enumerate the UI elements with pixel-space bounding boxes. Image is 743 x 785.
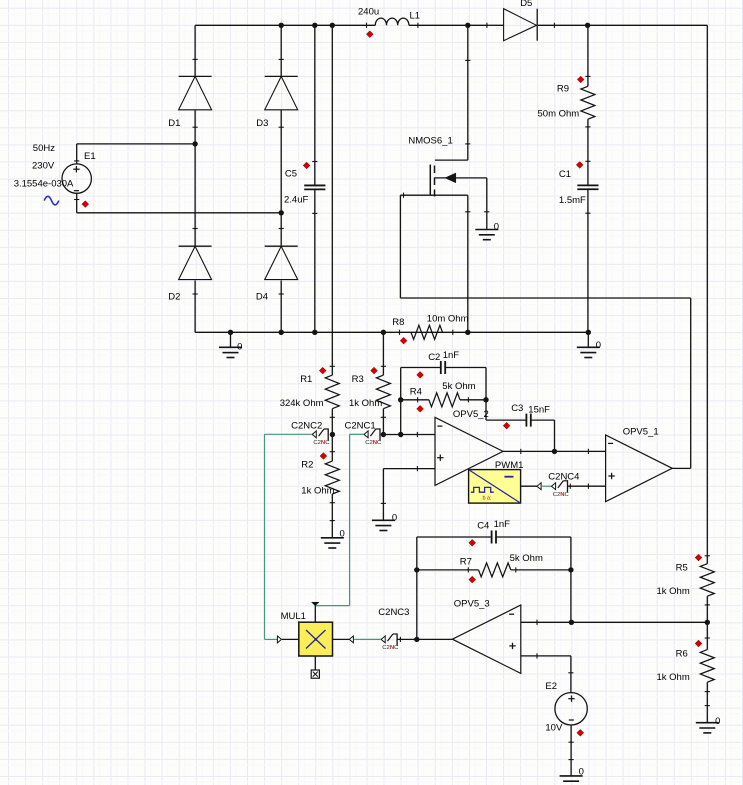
wire D2 column to rail: [194, 280, 196, 332]
svg-text:R7: R7: [460, 557, 472, 568]
svg-text:3.1554e-030A: 3.1554e-030A: [14, 178, 74, 189]
svg-text:1k Ohm: 1k Ohm: [301, 485, 334, 496]
label D1: [168, 118, 180, 129]
label 5kOhm R7: [510, 553, 543, 564]
probe R3: [371, 367, 378, 374]
wire D3-D4 mid: [280, 110, 282, 247]
teal wire C2NC2 to MUL1: [265, 434, 312, 639]
label R1: [300, 374, 312, 385]
svg-text:10m Ohm: 10m Ohm: [427, 313, 469, 324]
sine symbol E1: [44, 196, 59, 205]
source E1: [62, 161, 91, 200]
wire C2NC4 to OPV5_1: [568, 484, 606, 489]
resistor R8: [400, 325, 453, 339]
label 50mOhm: [538, 108, 580, 119]
svg-text:5k Ohm: 5k Ohm: [442, 381, 475, 392]
label D5: [520, 0, 532, 9]
node top rail drain: [465, 23, 470, 28]
node R1R2: [330, 432, 335, 437]
teal wire C2NC1 to MUL1 top: [315, 434, 363, 605]
label PWM1: [495, 460, 524, 471]
wire right rail down: [706, 25, 708, 563]
wire E1 bottom: [77, 193, 282, 213]
svg-text:C2NC: C2NC: [553, 492, 570, 498]
diode D5: [487, 9, 555, 41]
wire R9 to C1: [587, 119, 589, 185]
node rail right end: [586, 330, 591, 335]
svg-text:0: 0: [237, 341, 242, 352]
ground R2: [321, 529, 345, 548]
svg-text:C2NC2: C2NC2: [291, 421, 322, 432]
svg-text:0: 0: [494, 222, 499, 233]
resistor R5: [700, 556, 714, 605]
wire R4 leads: [401, 399, 486, 401]
svg-text:C2NC: C2NC: [382, 645, 399, 651]
label E1: [84, 151, 96, 162]
label 10V: [545, 723, 563, 734]
svg-text:b a;: b a;: [483, 495, 492, 501]
label 1kOhm R5: [657, 586, 690, 597]
capacitor C2: [441, 361, 445, 374]
svg-text:50m Ohm: 50m Ohm: [538, 108, 580, 119]
wire OPV5_2 plus input: [381, 466, 435, 520]
wire top rail: [195, 24, 707, 26]
label 50Hz: [33, 143, 55, 154]
label C2NC2: [291, 421, 322, 432]
wire R1 sense column: [331, 25, 333, 375]
arrow MUL1 left in: [277, 636, 281, 643]
label C3: [511, 403, 523, 414]
label R7: [460, 557, 472, 568]
ground R6: [696, 716, 721, 733]
capacitor C4: [492, 531, 496, 544]
label 1kOhm R3: [349, 398, 382, 409]
svg-text:D3: D3: [256, 118, 268, 129]
label 10mOhm: [427, 313, 469, 324]
wire C1 to ground rail: [587, 189, 589, 332]
svg-text:L1: L1: [410, 10, 421, 21]
svg-text:C5: C5: [285, 168, 297, 179]
terminal MUL1 bottom: [311, 670, 319, 678]
label 240u: [358, 6, 379, 17]
wire bridge bottom rail: [195, 331, 588, 333]
wire feedback left: [400, 368, 402, 435]
label 1kOhm R2: [301, 485, 334, 496]
label 15nF: [528, 405, 550, 416]
node R7 right: [568, 567, 573, 572]
capacitor C1: [577, 161, 598, 213]
teal wire PWM1 to C2NC4: [541, 485, 551, 487]
svg-text:D5: D5: [520, 0, 532, 9]
probe R6: [695, 640, 702, 647]
label MUL1: [281, 611, 306, 622]
label OPV5_2: [453, 409, 489, 420]
svg-text:1k Ohm: 1k Ohm: [657, 672, 690, 683]
wire D1 to E1 node: [194, 110, 196, 247]
svg-text:240u: 240u: [358, 6, 379, 17]
wire C5 column: [314, 25, 316, 332]
node rail D4: [279, 330, 284, 335]
svg-text:PWM1: PWM1: [495, 460, 524, 471]
wire OPV5_1 output: [672, 467, 691, 469]
svg-text:C2NC1: C2NC1: [345, 421, 376, 432]
wire R1 to R2: [331, 409, 333, 461]
svg-text:1k Ohm: 1k Ohm: [657, 586, 690, 597]
svg-text:R5: R5: [676, 563, 688, 574]
wire D1 column: [194, 25, 196, 76]
wire error amp input node: [383, 432, 434, 437]
resistor R1: [325, 366, 339, 417]
label OPV5_3: [454, 599, 490, 610]
wire E1 top: [77, 144, 195, 164]
label 2.4uF: [284, 195, 308, 206]
arrow MUL1 top in: [312, 602, 320, 606]
label R3: [352, 374, 364, 385]
svg-text:NMOS6_1: NMOS6_1: [408, 136, 452, 147]
arrow PWM1 out: [537, 483, 541, 490]
coupler C2NC4: [552, 480, 570, 498]
ground shunt right: [577, 332, 601, 357]
ground NMOS bulk: [475, 222, 499, 240]
svg-text:E2: E2: [545, 681, 557, 692]
wire OPV5_3 out: [398, 637, 453, 642]
svg-text:MUL1: MUL1: [281, 611, 306, 622]
node top rail C5: [312, 23, 317, 28]
wire tap to divider: [571, 621, 708, 623]
wire C3 link: [486, 420, 555, 451]
resistor R4: [418, 393, 469, 407]
probe R5: [695, 554, 702, 561]
label D3: [256, 118, 268, 129]
svg-text:C2NC: C2NC: [365, 440, 382, 446]
label 324kOhm: [280, 398, 324, 409]
node rail source: [465, 330, 470, 335]
wire NMOS drain: [467, 25, 469, 160]
probe R9: [577, 76, 584, 83]
svg-text:D2: D2: [168, 292, 180, 303]
op-amp OPV5_2: [435, 417, 503, 485]
inductor L1: [367, 18, 418, 28]
probe C5: [303, 162, 310, 169]
wire OPV5_3 plus: [521, 653, 574, 692]
label D2: [168, 292, 180, 303]
svg-text:R3: R3: [352, 374, 364, 385]
svg-text:R9: R9: [557, 84, 569, 95]
svg-text:324k Ohm: 324k Ohm: [280, 398, 324, 409]
node minus tap: [569, 620, 574, 625]
node error input: [398, 432, 403, 437]
svg-text:15nF: 15nF: [528, 405, 550, 416]
svg-text:2.4uF: 2.4uF: [284, 195, 308, 206]
label C1: [559, 169, 571, 180]
node E1 top: [192, 141, 197, 146]
label 1kOhm R6: [657, 672, 690, 683]
svg-text:0: 0: [579, 766, 584, 777]
svg-text:1nF: 1nF: [443, 350, 460, 361]
svg-text:OPV5_2: OPV5_2: [453, 409, 489, 420]
multiplier MUL1: [282, 606, 349, 671]
svg-text:C3: C3: [511, 403, 523, 414]
probe R1: [319, 367, 326, 374]
op-amp OPV5_3: [452, 605, 520, 673]
op-amp OPV5_1: [606, 435, 673, 502]
wire C2 top: [401, 367, 486, 369]
coupler C2NC3: [381, 633, 399, 651]
label R4: [410, 387, 422, 398]
diode D4: [265, 229, 298, 295]
probe C4: [469, 539, 476, 546]
svg-text:R1: R1: [300, 374, 312, 385]
wire feedback right: [485, 368, 487, 421]
coupler C2NC2: [312, 428, 330, 446]
source E2: [555, 693, 587, 725]
node C3 tap: [552, 449, 557, 454]
svg-text:C2: C2: [428, 352, 440, 363]
probe C1: [576, 162, 583, 169]
svg-text:0: 0: [392, 512, 397, 523]
coupler C2NC1: [364, 428, 382, 446]
diode D3: [265, 59, 298, 127]
wire R2 to ground: [331, 494, 333, 538]
label OPV5_1: [623, 426, 659, 437]
node top rail R1: [330, 23, 335, 28]
svg-text:230V: 230V: [32, 160, 55, 171]
probe E1: [82, 201, 89, 208]
wire R7 leads: [417, 569, 571, 571]
label R6: [676, 648, 688, 659]
wire R3 branch: [382, 332, 384, 375]
node rail R3: [381, 330, 386, 335]
label R9: [557, 84, 569, 95]
node R3 bottom: [381, 432, 386, 437]
label 1nF C2: [443, 350, 460, 361]
svg-text:1nF: 1nF: [494, 519, 511, 530]
block PWM1: [469, 470, 521, 504]
label L1: [410, 10, 421, 21]
capacitor C5: [304, 162, 325, 214]
svg-text:C4: C4: [477, 521, 489, 532]
label 1nF C4: [494, 519, 511, 530]
resistor R7: [468, 563, 516, 577]
label C2NC3: [378, 607, 409, 618]
label R2: [301, 459, 313, 470]
teal wire MUL1 right: [354, 638, 381, 640]
wire D4 to rail: [280, 280, 282, 332]
svg-text:R2: R2: [301, 459, 313, 470]
label 230V: [32, 160, 55, 171]
svg-text:E1: E1: [84, 151, 96, 162]
label 3.1554e-030A: [14, 178, 74, 189]
probe R2: [320, 453, 327, 460]
probe L1: [366, 31, 373, 38]
svg-text:10V: 10V: [545, 723, 563, 734]
wire E2 to ground: [569, 725, 574, 776]
resistor R6: [700, 638, 714, 692]
label R5: [676, 563, 688, 574]
svg-text:1.5mF: 1.5mF: [559, 195, 586, 206]
resistor R3: [376, 366, 390, 417]
node R7 left: [414, 567, 419, 572]
svg-text:C1: C1: [559, 169, 571, 180]
label 5kOhm R4: [442, 381, 475, 392]
probe C2: [417, 372, 424, 379]
svg-text:C2NC3: C2NC3: [378, 607, 409, 618]
wire R6 to ground: [705, 682, 710, 722]
label NMOS6_1: [408, 136, 452, 147]
label E2: [545, 681, 557, 692]
label C5: [285, 168, 297, 179]
label C2: [428, 352, 440, 363]
resistor R2: [325, 452, 339, 521]
transistor NMOS6_1: [400, 60, 489, 228]
wire fb3 vertical: [416, 537, 418, 639]
probe R4: [417, 405, 424, 412]
wire D3 column: [280, 25, 282, 76]
wire NMOS gate run: [400, 195, 690, 468]
svg-text:R4: R4: [410, 387, 422, 398]
label D4: [256, 292, 268, 303]
svg-text:0: 0: [715, 716, 720, 727]
svg-text:R6: R6: [676, 648, 688, 659]
probe R8: [400, 337, 407, 344]
node E1 bottom: [279, 210, 284, 215]
wire NMOS source to rail: [467, 195, 469, 332]
svg-text:0: 0: [340, 529, 345, 540]
ground E2: [560, 766, 584, 785]
resistor R9: [581, 76, 595, 127]
wire R5 to tap: [706, 596, 708, 649]
probe E2: [577, 729, 584, 736]
diode D2: [179, 229, 212, 295]
node divider tap: [705, 620, 710, 625]
wire PWM1 output: [521, 485, 537, 487]
svg-text:R8: R8: [392, 317, 404, 328]
node fb left top: [398, 397, 403, 402]
svg-text:OPV5_3: OPV5_3: [454, 599, 490, 610]
arrow MUL1 right in: [349, 636, 353, 643]
svg-text:50Hz: 50Hz: [33, 143, 55, 154]
svg-text:0: 0: [596, 340, 601, 351]
svg-text:D1: D1: [168, 118, 180, 129]
node top rail R9: [585, 23, 590, 28]
node fb right: [483, 397, 488, 402]
node rail gnd: [228, 330, 233, 335]
diode D1: [179, 59, 212, 127]
ground OPV5_2 plus: [372, 512, 397, 530]
wire OPV5_3 minus: [521, 620, 572, 625]
svg-text:OPV5_1: OPV5_1: [623, 426, 659, 437]
probe R7: [469, 576, 476, 583]
wire C4 top: [417, 537, 571, 622]
svg-text:5k Ohm: 5k Ohm: [510, 553, 543, 564]
capacitor C3: [526, 414, 530, 427]
node rail C5: [312, 330, 317, 335]
node OPV5_3 out: [414, 637, 419, 642]
wire R3 to node: [382, 409, 384, 435]
svg-text:C2NC: C2NC: [313, 440, 330, 446]
label C2NC4: [548, 471, 579, 482]
node top rail D3: [279, 23, 284, 28]
svg-text:D4: D4: [256, 292, 268, 303]
label R8: [392, 317, 404, 328]
probe C3: [503, 422, 510, 429]
label 1.5mF: [559, 195, 586, 206]
wire R9 column: [587, 25, 589, 86]
label C2NC1: [345, 421, 376, 432]
wire OPV5_2 output: [503, 449, 605, 454]
wire L1 leads: [0, 0, 1, 1]
svg-text:1k Ohm: 1k Ohm: [349, 398, 382, 409]
label C4: [477, 521, 489, 532]
ground bridge rail: [219, 332, 242, 357]
